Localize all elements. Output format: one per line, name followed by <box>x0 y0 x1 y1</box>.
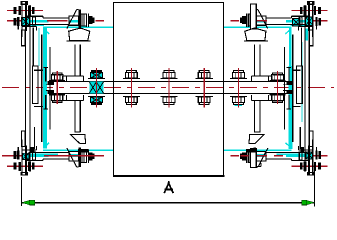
cyan highlights right lower <box>256 143 306 157</box>
red dash left bottom shank <box>44 155 96 157</box>
red centerlines left lower bolts <box>7 156 104 166</box>
red dash right top shank <box>256 20 267 22</box>
shaft left end collar <box>48 82 54 85</box>
dimension label A <box>165 182 173 193</box>
cyan band B right lower <box>288 66 292 149</box>
U-bolt cluster 1 on shaft <box>49 71 65 104</box>
cyan highlight lines bottom left <box>22 153 58 155</box>
red centerlines right lower bolts <box>231 156 328 166</box>
X-box top right extra <box>292 18 300 26</box>
cyan highlight lines top left <box>22 24 44 26</box>
red centerlines right upper bolts <box>231 10 328 20</box>
shaft top line <box>47 81 292 83</box>
dimension arrow right (green) <box>306 200 314 205</box>
right bracket lower assembly <box>240 88 321 175</box>
U-bolt cluster 4 on shaft <box>161 68 177 107</box>
right lower leg (outlined) <box>250 149 256 168</box>
X-box top left <box>21 17 29 25</box>
right upper leg (outlined) <box>250 4 256 29</box>
main horizontal centerline <box>2 87 334 89</box>
cyan band A left <box>38 28 40 66</box>
cyan stub top right <box>305 29 308 41</box>
cyan band B left <box>43 28 47 149</box>
left lower foot bracket <box>70 134 85 143</box>
right plate inner vertical bottom <box>299 127 301 149</box>
cyan highlight lines bottom right <box>277 153 313 155</box>
shaft right end collar <box>286 82 292 85</box>
right plate inner vertical top <box>300 28 302 66</box>
U-bolt cluster 3 on shaft <box>123 68 139 107</box>
red dash right bottom shank <box>241 155 249 157</box>
cyan highlight lines top right <box>291 24 313 26</box>
X-box bottom right <box>306 152 313 159</box>
U-bolt cluster 7 on shaft <box>270 71 286 104</box>
dimension arrow left (green) <box>22 200 30 205</box>
left lower corner block <box>31 147 35 152</box>
left plate inner vertical bottom <box>33 127 35 149</box>
X-box bottom left <box>22 153 29 159</box>
cyan band A right <box>301 42 303 122</box>
U-bolt cluster 5 on shaft <box>196 68 212 107</box>
cyan highlights right upper <box>256 20 306 34</box>
central body thick bottom edge <box>113 175 224 177</box>
left spring box plate <box>32 66 38 103</box>
dimension extension line right <box>314 171 316 206</box>
left plate inner vertical top <box>32 28 34 66</box>
right rod bottom cap <box>254 131 260 133</box>
red dash left top shank <box>47 20 67 22</box>
left bracket lower assembly <box>14 88 95 175</box>
cyan highlights left upper <box>29 20 79 34</box>
U-bolt cluster 2 on shaft <box>88 68 104 107</box>
left bracket upper assembly <box>14 2 95 89</box>
red centerlines left upper bolts <box>7 10 104 20</box>
dimension line <box>21 202 314 204</box>
right bracket upper assembly <box>240 2 321 89</box>
X-box top right <box>305 17 313 26</box>
cyan band B right upper (thin) <box>289 28 292 66</box>
right upper foot bracket <box>245 28 266 41</box>
left rod bottom cap <box>74 131 80 133</box>
right lower foot bracket <box>249 134 264 143</box>
dimension extension line left <box>20 177 22 206</box>
central body rectangle <box>113 2 223 176</box>
left upper foot bracket <box>69 28 90 41</box>
cyan highlights left lower <box>29 143 79 157</box>
shaft bottom line <box>47 92 292 94</box>
right spring box plate <box>297 66 303 103</box>
U-bolt cluster 6 on shaft <box>230 68 246 107</box>
right lower corner block <box>300 147 304 152</box>
